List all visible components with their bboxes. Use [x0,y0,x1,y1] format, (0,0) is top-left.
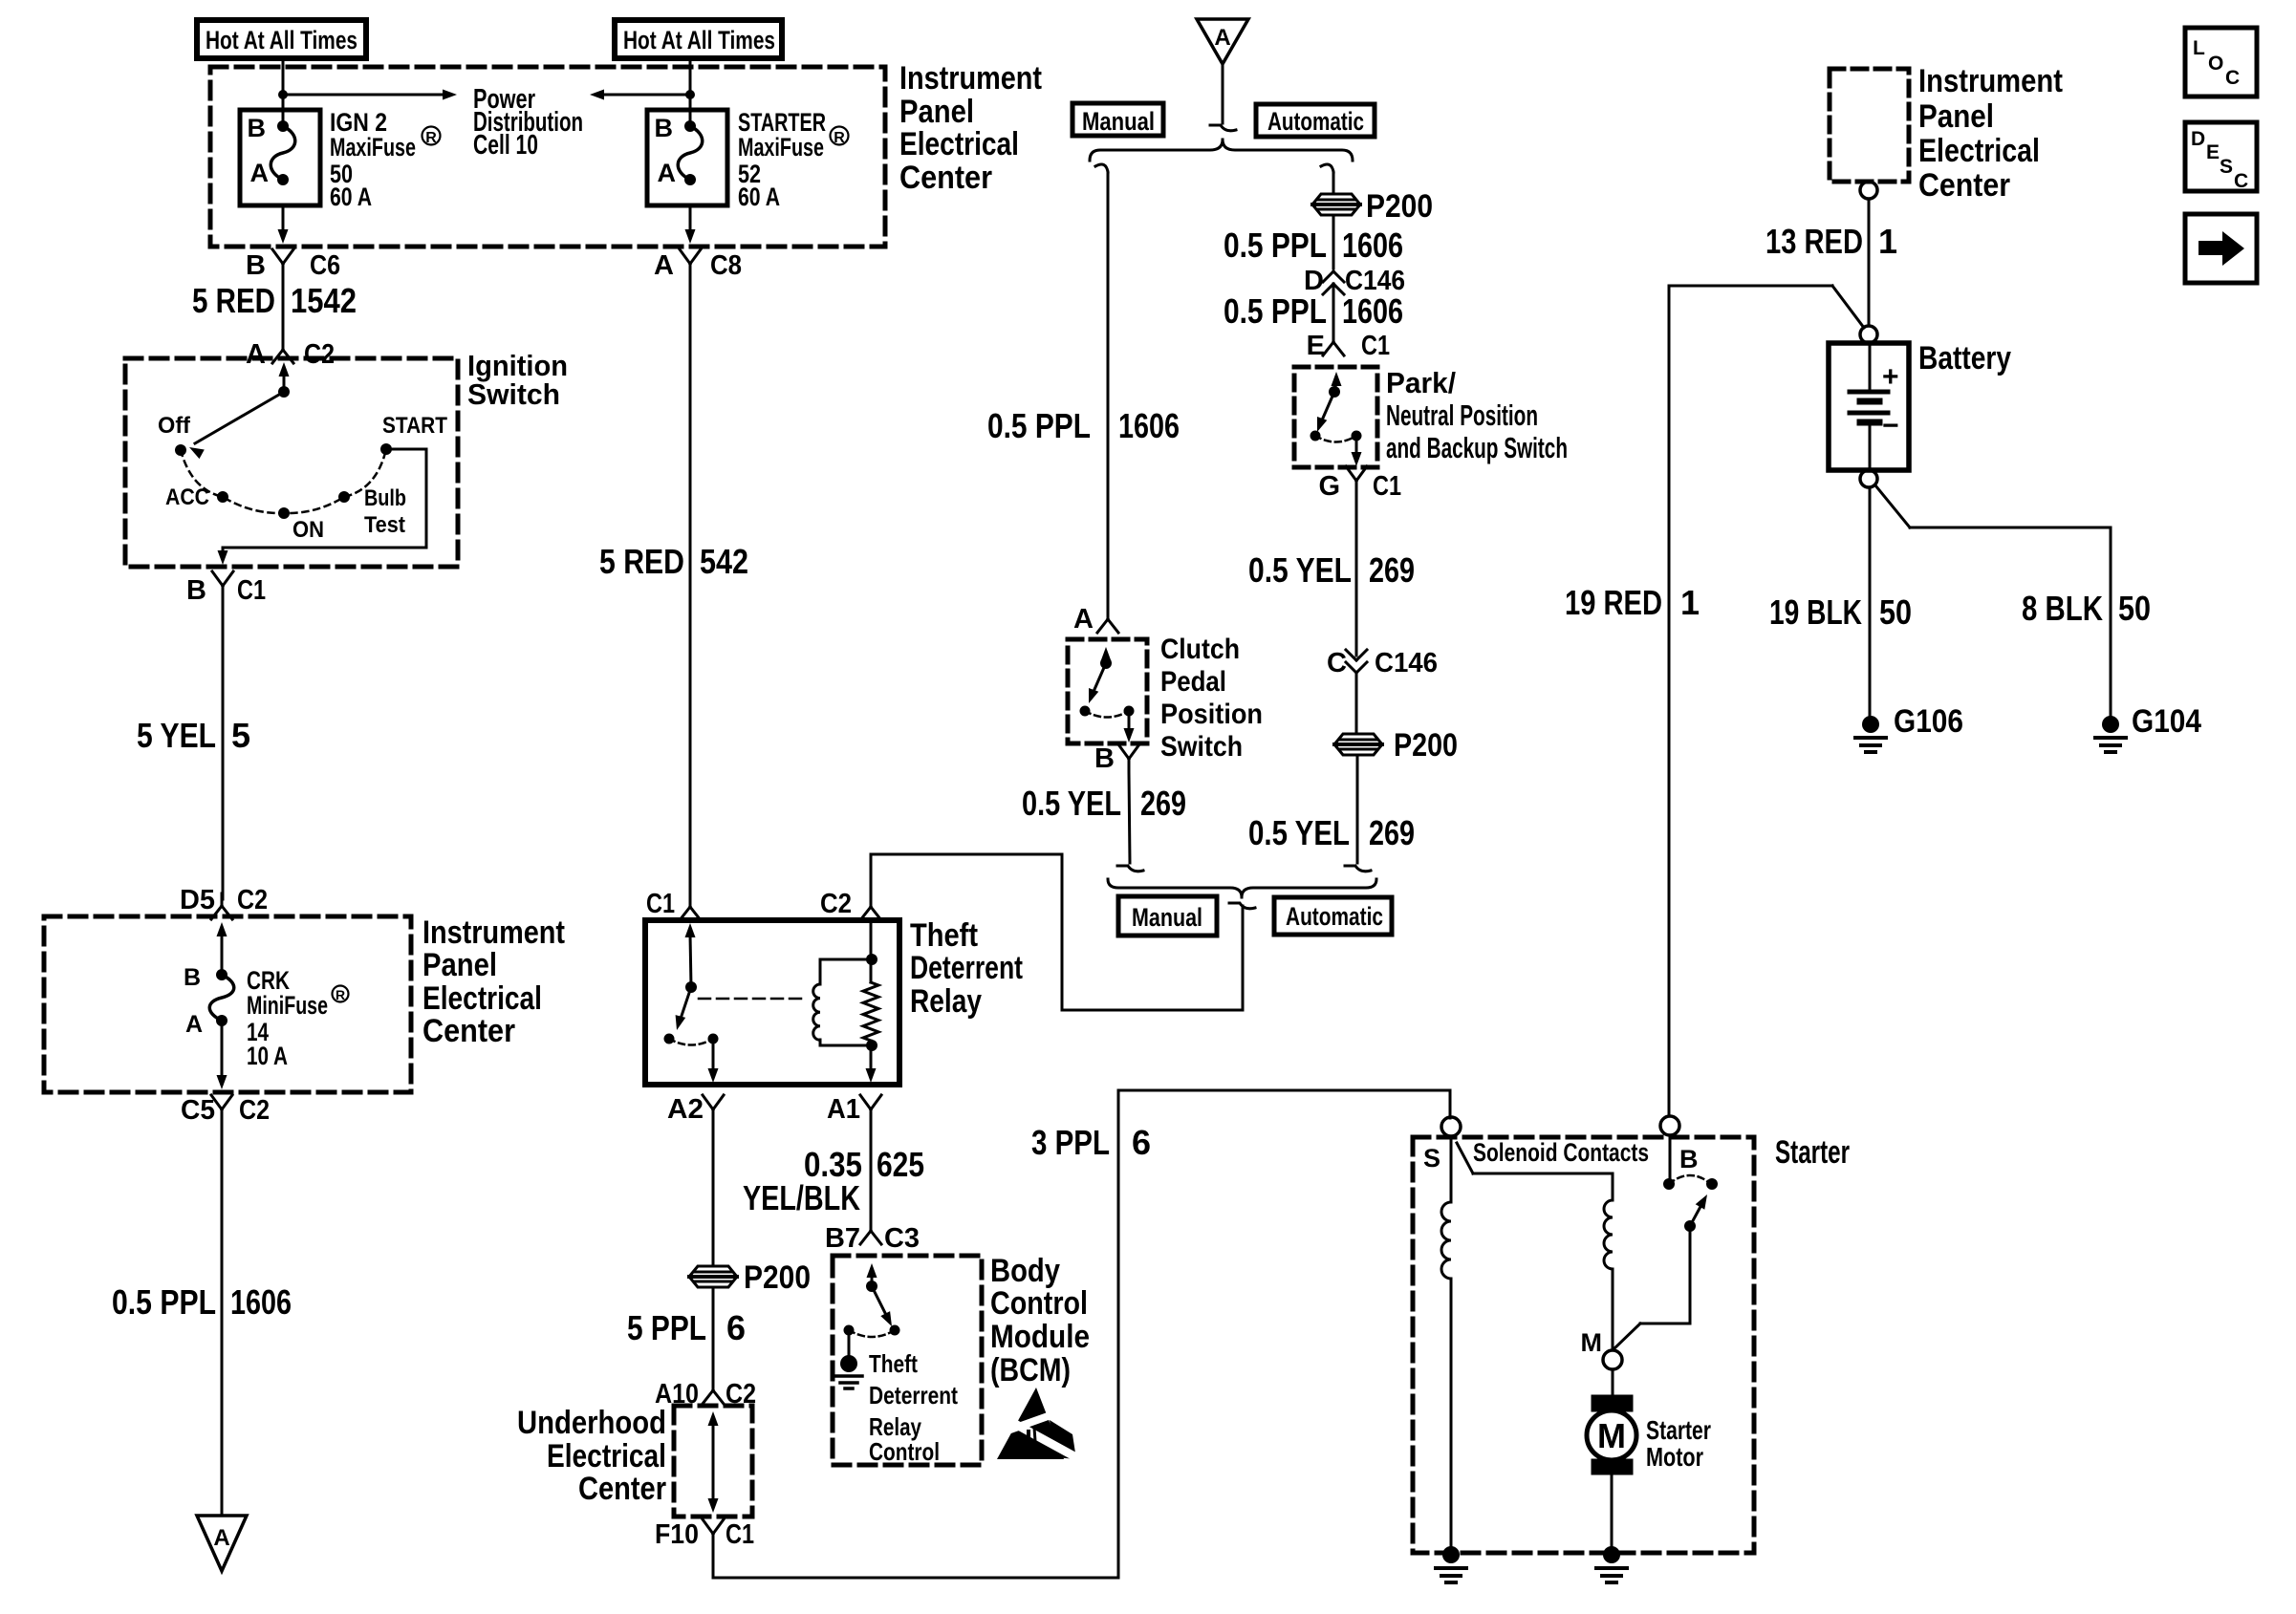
svg-text:0.5 PPL: 0.5 PPL [112,1282,216,1322]
wire: Hot At All Times 1 down to fuse IGN 2 [278,58,288,126]
BCM: internal ground [835,1330,862,1388]
svg-text:Deterrent: Deterrent [869,1381,958,1410]
svg-text:19 BLK: 19 BLK [1769,592,1862,632]
label: Ignition Switch [467,349,568,411]
dashed box: Instrument Panel Electrical Center (top) [210,67,885,247]
svg-text:0.5 YEL: 0.5 YEL [1248,813,1350,852]
BCM: driver contacts [844,1325,900,1338]
svg-text:Center: Center [578,1471,666,1507]
svg-text:0.5 YEL: 0.5 YEL [1248,550,1352,590]
svg-text:MaxiFuse: MaxiFuse [738,133,824,161]
svg-text:5 YEL: 5 YEL [137,716,216,755]
svg-text:Electrical: Electrical [1918,133,2040,169]
inline connector P200 (automatic branch bottom) [1334,727,1458,764]
label: 0.35 YEL/BLK 625 [743,1145,924,1217]
wire: plunger to M terminal [1614,1226,1690,1348]
svg-text:S: S [2220,156,2233,178]
terminal circle: starter B [1660,1116,1679,1135]
ignition switch: ON contact [278,507,324,543]
svg-text:C1: C1 [726,1519,754,1550]
connector A1 [827,1094,881,1125]
svg-text:Automatic: Automatic [1267,107,1364,136]
brace: manual/automatic split (top) [1090,140,1353,161]
svg-text:G: G [1318,471,1340,502]
svg-text:Control: Control [869,1437,940,1466]
label: 0.5 PPL 1606 (left) [112,1282,292,1322]
svg-text:C: C [2225,67,2240,89]
svg-text:5: 5 [231,716,250,755]
svg-text:1606: 1606 [230,1282,292,1322]
terminal circle: battery negative [1860,470,1877,487]
connector A10/C2 [655,1378,756,1410]
wire: P200 to C146 [1332,216,1335,269]
connector E/C1 [1307,330,1390,361]
reference box: DESC [2185,122,2257,192]
connector B/C6 [246,249,340,281]
label box: Automatic (bottom) [1274,897,1392,935]
svg-text:−: − [1882,410,1899,441]
label: 19 RED 1 [1565,583,1700,622]
wire: triangle A to selector brace [1210,64,1236,131]
wire: 5 RED 542 [689,277,692,902]
svg-text:C3: C3 [884,1223,920,1254]
connector G/C1 [1318,466,1401,502]
svg-text:(BCM): (BCM) [990,1352,1071,1388]
svg-text:10 A: 10 A [247,1042,288,1070]
connector B7/C3 [825,1218,920,1254]
brace: manual/automatic join (bottom) [1108,879,1376,897]
ignition switch: START output wire [218,449,427,565]
ignition switch: ACC contact [165,484,228,510]
connector A2 [667,1094,724,1125]
svg-text:C146: C146 [1375,648,1438,678]
svg-text:Body: Body [990,1253,1060,1289]
connector C/C146 [1327,648,1438,678]
label: Battery [1918,340,2011,377]
starter solenoid contacts B side [1663,1175,1718,1190]
svg-text:Off: Off [158,413,191,439]
label box: Hot At All Times (right) [615,20,782,58]
svg-text:M: M [1597,1416,1626,1455]
fuse CRK MiniFuse 14 10A [184,964,234,1038]
label: 0.5 YEL 269 (upper) [1248,550,1415,590]
dashed box: Starter [1413,1137,1754,1553]
wire: C146 to E C1 [1332,284,1335,336]
svg-text:6: 6 [1132,1123,1151,1162]
svg-text:+: + [1882,361,1899,393]
svg-text:6: 6 [726,1308,746,1347]
relay resistor [863,920,878,1083]
ground: starter solenoid coil [1436,1546,1466,1582]
ignition switch: Bulb Test contact [338,485,406,538]
label: 13 RED 1 [1765,222,1897,261]
svg-text:8 BLK: 8 BLK [2022,589,2103,628]
svg-text:P200: P200 [1366,188,1433,225]
wire: A1 to BCM B7 [870,1123,873,1227]
label: Clutch Pedal Position Switch [1160,634,1263,763]
connector B/C1 (ignition switch out) [186,571,266,606]
wire: fuse STARTER to connector C8 [685,205,696,244]
svg-text:Position: Position [1160,699,1263,730]
ground G104 [2095,703,2201,752]
svg-text:C1: C1 [646,889,675,919]
off-page triangle A (top) [1197,19,1248,64]
svg-text:Instrument: Instrument [899,60,1042,97]
svg-text:B: B [248,114,267,142]
svg-text:C6: C6 [310,250,340,281]
battery [1829,343,1909,470]
label box: Hot At All Times (left) [197,20,366,58]
park/neutral switch contacts [1310,372,1362,466]
svg-text:3 PPL: 3 PPL [1031,1123,1110,1162]
svg-text:D5: D5 [180,885,215,915]
svg-text:Test: Test [364,512,405,538]
wire: 0.5 YEL 269 (clutch out) [1117,772,1143,872]
svg-text:C8: C8 [710,250,742,281]
wire: 13 RED 1 [1868,199,1871,326]
svg-text:50: 50 [2118,589,2151,628]
svg-text:C: C [2234,170,2248,192]
svg-text:Neutral Position: Neutral Position [1386,398,1538,432]
svg-text:19 RED: 19 RED [1565,583,1662,622]
dashed box: Underhood Electrical Center [674,1406,752,1517]
svg-text:Cell 10: Cell 10 [473,130,538,161]
svg-text:Panel: Panel [899,94,974,130]
BCM: theft deterrent relay control driver [866,1263,892,1326]
svg-text:0.5 PPL: 0.5 PPL [987,406,1091,445]
wire: brace to theft deterrent relay C2 [871,854,1255,1010]
svg-text:Panel: Panel [1918,98,1994,135]
wire into CRK fuse [217,922,227,975]
wire: fuse IGN2 to connector C6 [278,205,289,244]
dashed box: Clutch Pedal Position Switch [1068,639,1147,743]
wire: automatic branch upper [1321,164,1333,194]
svg-text:60 A: 60 A [738,183,780,211]
fuse IGN 2 MaxiFuse 50 60A [240,110,320,205]
relay box: Theft Deterrent Relay [645,920,899,1085]
wire: battery positive to starter B (19 RED 1) [1669,286,1864,1115]
svg-text:R: R [425,130,437,146]
reference box: continuation arrow [2185,214,2257,283]
label: Solenoid Contacts [1473,1138,1649,1167]
svg-text:R: R [336,987,345,1002]
relay switch arm [676,923,697,1030]
svg-text:5 PPL: 5 PPL [627,1308,706,1347]
label: B terminal [1679,1145,1699,1173]
connector D/C146 [1304,266,1405,296]
svg-text:START: START [382,413,447,439]
svg-text:ACC: ACC [165,484,209,510]
svg-text:B: B [184,964,201,991]
label: Instrument Panel Electrical Center (right) [1918,63,2063,204]
svg-text:F10: F10 [655,1519,699,1550]
inline connector P200 (theft relay feed) [689,1259,811,1296]
wire through Underhood Electrical Center [708,1411,719,1513]
svg-text:Battery: Battery [1918,340,2011,377]
wire: P200 to bottom brace (automatic) [1345,756,1371,872]
svg-text:A: A [213,1525,229,1551]
svg-text:Pedal: Pedal [1160,666,1226,698]
dashed box: Instrument Panel Electrical Center (CRK fuse) [44,916,411,1092]
svg-text:C1: C1 [237,575,266,606]
dashed box: Instrument Panel Electrical Center (right) [1830,69,1909,182]
svg-text:B: B [246,250,266,281]
svg-text:A: A [1214,25,1230,51]
svg-text:1: 1 [1878,222,1897,261]
svg-text:E: E [1307,331,1325,361]
svg-text:Park/: Park/ [1386,366,1456,399]
starter solenoid pull-in coil [1441,1136,1451,1546]
svg-text:269: 269 [1369,550,1415,590]
svg-text:C1: C1 [1373,471,1401,502]
svg-text:B: B [1679,1145,1699,1173]
inline connector P200 (automatic branch top) [1312,188,1433,225]
label: 3 PPL 6 [1031,1123,1151,1162]
label: STARTER MaxiFuse 52 60 A [738,108,849,211]
svg-text:B: B [186,575,206,606]
svg-text:Motor: Motor [1646,1442,1703,1472]
svg-text:A: A [1073,604,1094,635]
svg-text:C2: C2 [239,1095,270,1126]
label: 0.5 PPL 1606 (automatic lower) [1224,291,1403,331]
svg-text:Center: Center [1918,167,2010,204]
svg-text:Hot At All Times: Hot At All Times [623,26,775,54]
svg-text:Manual: Manual [1132,903,1202,932]
svg-text:C2: C2 [820,889,852,919]
svg-text:P200: P200 [1394,727,1458,764]
svg-text:G104: G104 [2132,703,2201,740]
wire: A2 to P200 [712,1123,715,1266]
svg-text:B7: B7 [825,1223,860,1254]
svg-text:S: S [1423,1144,1440,1173]
svg-text:C: C [1327,648,1347,678]
terminal circle: starter M [1581,1328,1623,1369]
label: 5 PPL 6 [627,1308,746,1347]
dashed box: Body Control Module (BCM) [833,1256,982,1465]
svg-text:Clutch: Clutch [1160,634,1240,665]
label: 0.5 PPL 1606 (manual branch) [987,406,1180,445]
label: 5 RED 1542 [192,281,357,320]
svg-text:Relay: Relay [910,983,982,1020]
svg-text:Starter: Starter [1646,1415,1711,1445]
label: Power Distribution Cell 10 [473,84,583,161]
relay coil link (dashed) [699,998,801,1001]
clutch switch contacts [1080,647,1135,742]
label box: Manual (bottom) [1118,896,1217,936]
svg-text:542: 542 [700,542,748,581]
wire: C146 to P200 (automatic return) [1355,674,1358,734]
svg-text:Switch: Switch [467,377,560,411]
svg-text:C2: C2 [304,339,335,370]
svg-text:Electrical: Electrical [899,126,1019,162]
label: 0.5 YEL 269 (automatic lower) [1248,813,1415,852]
svg-text:M: M [1581,1328,1603,1357]
wire: 5 PPL 6 [712,1287,715,1386]
svg-text:Electrical: Electrical [547,1438,666,1474]
wire: 0.5 PPL 1606 (left) [221,1123,224,1516]
label: Underhood Electrical Center [517,1405,666,1507]
starter solenoid plunger arm [1684,1194,1707,1232]
dashed box: Ignition Switch [125,358,458,567]
svg-text:C1: C1 [1361,331,1390,361]
arrow: power distribution feed (right fuse) [590,90,690,100]
fuse STARTER MaxiFuse 52 60A [647,110,727,205]
label: Body Control Module (BCM) [990,1253,1090,1388]
svg-text:1542: 1542 [291,281,357,320]
label: 0.5 YEL 269 (clutch) [1022,784,1186,823]
svg-text:Switch: Switch [1160,731,1243,763]
wire: solenoid contacts link [1457,1143,1613,1200]
svg-text:Panel: Panel [422,947,497,983]
ignition switch: rotor dashed arc [181,449,386,513]
connector A/C8 [654,249,742,281]
connector F10/C1 [655,1519,754,1550]
svg-text:Hot At All Times: Hot At All Times [206,26,357,54]
label: Instrument Panel Electrical Center (top right of dashed box) [899,60,1042,196]
svg-text:Automatic: Automatic [1286,902,1383,931]
svg-text:5 RED: 5 RED [192,281,275,320]
svg-text:A: A [250,159,270,187]
svg-text:L: L [2193,37,2205,59]
connector B (clutch pedal position switch) [1094,743,1139,774]
svg-text:50: 50 [1879,592,1912,632]
terminal circle: IP electrical center feed [1860,182,1877,199]
svg-text:B: B [655,114,674,142]
svg-text:Theft: Theft [869,1349,918,1378]
connector C5/C2 [181,1095,270,1126]
connector A (clutch pedal position switch) [1073,604,1118,635]
label: 8 BLK 50 [2022,589,2151,628]
relay contacts [664,1034,719,1084]
svg-text:A: A [246,339,266,370]
wire out of CRK fuse [217,1021,227,1089]
icon: ESD sensitive device [997,1388,1076,1459]
svg-text:625: 625 [877,1145,924,1184]
svg-text:O: O [2208,53,2223,75]
svg-text:0.5 PPL: 0.5 PPL [1224,291,1327,331]
wire: battery negative to G106 (19 BLK 50) [1869,487,1872,716]
ground: starter motor [1596,1546,1627,1582]
svg-text:ON: ON [292,517,324,543]
svg-text:B: B [1094,743,1115,774]
label: Park/Neutral Position and Backup Switch [1386,366,1568,464]
svg-text:Underhood: Underhood [517,1405,666,1441]
svg-text:Instrument: Instrument [422,915,565,951]
svg-text:MaxiFuse: MaxiFuse [330,133,416,161]
svg-text:R: R [834,130,845,146]
label: Theft Deterrent Relay Control [869,1349,958,1466]
svg-text:Module: Module [990,1319,1090,1355]
svg-text:1606: 1606 [1118,406,1180,445]
label: 0.5 PPL 1606 (automatic upper) [1224,226,1403,265]
svg-text:Solenoid Contacts: Solenoid Contacts [1473,1138,1649,1167]
ignition switch: START contact [380,413,447,455]
off-page triangle A (bottom left) [197,1516,247,1571]
wire: Hot At All Times 2 down to fuse STARTER [685,58,695,126]
label: CRK MiniFuse 14 10 A [247,966,349,1070]
svg-text:269: 269 [1140,784,1186,823]
svg-text:A2: A2 [667,1094,704,1125]
label: 5 RED 542 [599,542,748,581]
svg-text:C5: C5 [181,1095,215,1126]
wire: manual branch (0.5 PPL 1606) [1095,164,1108,613]
terminal circle: battery positive [1860,326,1877,343]
connector C1 (relay) [646,889,701,920]
svg-text:Theft: Theft [910,917,978,954]
connector D5/C2 [180,885,268,919]
label: S terminal [1423,1144,1440,1173]
dashed box: Park/Neutral Position and Backup Switch [1294,367,1377,467]
svg-text:13 RED: 13 RED [1765,222,1863,261]
label: IGN 2 MaxiFuse 50 60 A [330,108,441,211]
svg-text:Starter: Starter [1775,1134,1850,1171]
svg-text:Electrical: Electrical [422,980,542,1017]
arrow: power distribution feed (left fuse) [283,90,457,100]
reference box: LOC [2185,28,2257,97]
svg-text:P200: P200 [744,1259,811,1296]
svg-text:Manual: Manual [1082,107,1155,136]
svg-text:A1: A1 [827,1094,860,1125]
svg-text:1606: 1606 [1342,226,1403,265]
svg-text:Center: Center [422,1013,515,1049]
svg-text:MiniFuse: MiniFuse [247,991,328,1020]
wire: battery negative to G104 (8 BLK 50) [1875,485,2111,716]
svg-text:60 A: 60 A [330,183,372,211]
svg-text:and Backup Switch: and Backup Switch [1386,431,1568,464]
relay coil [813,954,877,1051]
svg-text:G106: G106 [1894,703,1963,740]
svg-text:1606: 1606 [1342,291,1403,331]
label: 5 YEL 5 [137,716,250,755]
ground G106 [1855,703,1963,752]
wire: 0.5 YEL 269 (park/neutral out) [1355,494,1358,656]
svg-text:Deterrent: Deterrent [910,950,1023,986]
svg-text:1: 1 [1680,583,1700,622]
svg-text:YEL/BLK: YEL/BLK [743,1178,860,1217]
label: 19 BLK 50 [1769,592,1912,632]
label: Starter Motor [1646,1415,1711,1472]
svg-text:5 RED: 5 RED [599,542,684,581]
svg-text:A: A [654,250,674,281]
svg-text:0.5 PPL: 0.5 PPL [1224,226,1327,265]
svg-text:Center: Center [899,160,992,196]
label: Starter [1775,1134,1850,1171]
svg-text:Bulb: Bulb [364,485,406,511]
svg-text:0.5 YEL: 0.5 YEL [1022,784,1121,823]
ignition switch: feed arm [189,362,290,459]
label: Instrument Panel Electrical Center (CRK fuse) [422,915,565,1049]
svg-text:269: 269 [1369,813,1415,852]
wire: 5 RED 1542 [282,277,285,339]
svg-text:C2: C2 [237,885,268,915]
label box: Automatic (top) [1256,104,1375,137]
connector C2 (relay) [820,889,881,920]
svg-text:E: E [2206,141,2220,163]
connector A/C2 (ignition switch) [246,337,335,370]
label box: Manual (top) [1072,103,1163,136]
wire: B terminal stub [1669,1135,1672,1178]
svg-text:D: D [2191,128,2205,150]
svg-text:A: A [185,1011,203,1038]
svg-text:Instrument: Instrument [1918,63,2063,99]
starter solenoid hold-in coil [1604,1200,1613,1350]
svg-text:A: A [658,159,677,187]
label: Theft Deterrent Relay [910,917,1023,1020]
svg-text:Control: Control [990,1285,1088,1322]
starter motor [1587,1369,1636,1546]
terminal circle: starter S [1441,1117,1461,1136]
wire: 5 YEL 5 [222,599,225,899]
